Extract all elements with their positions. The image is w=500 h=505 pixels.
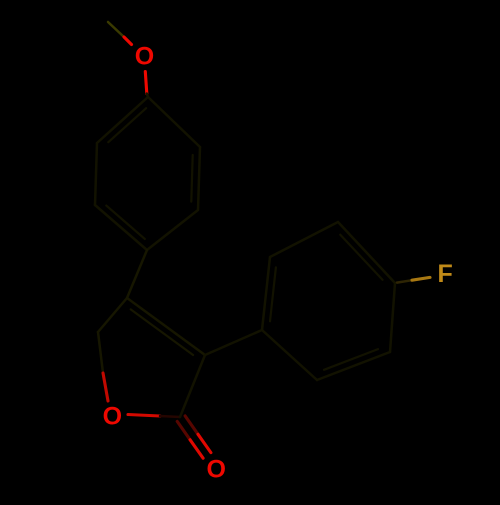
methoxy O-C(aryl) bond carbon tail — [147, 94, 148, 98]
furanone C5-O1 carbon half — [98, 332, 103, 373]
methyl CH3-O bond carbon half — [108, 22, 124, 37]
furanone C4-C5 bond — [98, 298, 127, 332]
carbonyl C2=O line a oxygen half — [190, 440, 203, 458]
furanone O1-C2 oxygen half — [128, 415, 160, 417]
bond W4 to F carbon half — [397, 280, 412, 282]
left ring inner double V4-V5 — [106, 206, 145, 239]
left ring edge V6-V1 — [97, 97, 148, 143]
right ring edge W2-W3 — [270, 222, 338, 257]
left ring inner double V2-V3 — [191, 155, 192, 202]
right ring edge W3-W4 — [338, 222, 395, 283]
right ring inner double W5-W6 — [324, 349, 378, 370]
furanone C5-O1 oxygen half — [103, 373, 108, 401]
right ring inner double W3-W4 — [340, 235, 382, 280]
carbonyl C2=O line a carbon half — [177, 421, 190, 439]
svg-text:O: O — [135, 42, 154, 70]
svg-text:O: O — [103, 402, 122, 430]
carbonyl C2=O line b oxygen half — [198, 434, 211, 452]
left ring edge V2-V3 — [198, 147, 200, 210]
svg-text:F: F — [438, 260, 453, 288]
methoxy O-C(aryl) bond red part — [145, 72, 147, 94]
furanone C2-C3 bond — [180, 355, 205, 417]
bond W4 to F fluorine half — [412, 277, 430, 280]
bond furanone C3 to fluorophenyl W1 — [205, 330, 262, 355]
left ring edge V5-V6 — [95, 143, 97, 205]
right ring inner double W1-W2 — [270, 267, 276, 321]
left ring edge V4-V5 — [95, 205, 147, 250]
furanone O1-C2 carbon half — [160, 416, 180, 417]
svg-text:O: O — [206, 455, 225, 483]
bond aryl V4 to furanone C4 — [127, 250, 147, 298]
right benzene ring edge W1-W2 — [262, 257, 270, 330]
methyl CH3-O bond oxygen half — [124, 37, 132, 45]
furanone C3=C4 double bond main — [127, 298, 205, 355]
left ring inner double V6-V1 — [108, 108, 146, 142]
furanone C3=C4 double bond inner — [131, 309, 193, 355]
right ring edge W4-W5 — [390, 283, 395, 352]
right ring edge W6-W1 — [262, 330, 317, 380]
left benzene ring edge V1-V2 — [148, 97, 200, 147]
right ring edge W5-W6 — [317, 352, 390, 380]
left ring edge V3-V4 — [147, 210, 198, 250]
carbonyl C2=O line b carbon half — [185, 416, 198, 434]
